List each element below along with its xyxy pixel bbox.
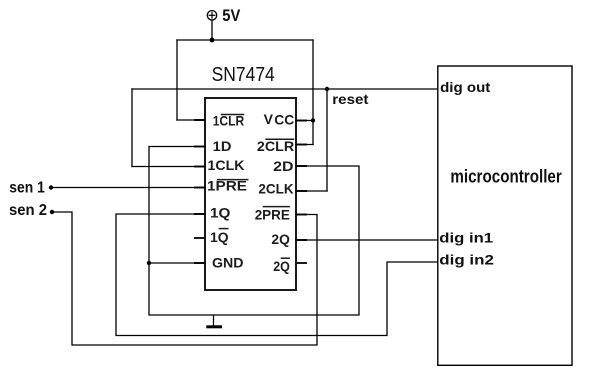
svg-text:5V: 5V [222, 7, 240, 25]
svg-text:dig in1: dig in1 [439, 230, 493, 246]
svg-text:GND: GND [212, 255, 244, 271]
svg-text:2Q: 2Q [273, 258, 290, 274]
svg-text:2CLR: 2CLR [257, 138, 294, 154]
svg-text:2CLK: 2CLK [258, 181, 293, 197]
svg-text:2D: 2D [273, 158, 293, 174]
svg-text:2PRE: 2PRE [255, 207, 290, 223]
svg-text:reset: reset [332, 91, 368, 107]
svg-text:dig in2: dig in2 [439, 252, 494, 268]
svg-text:1CLK: 1CLK [208, 157, 245, 173]
svg-text:sen 2: sen 2 [9, 202, 47, 219]
svg-text:CC: CC [274, 111, 294, 127]
svg-text:microcontroller: microcontroller [450, 167, 561, 187]
svg-text:V: V [264, 111, 274, 127]
svg-text:sen 1: sen 1 [9, 179, 45, 196]
svg-text:SN7474: SN7474 [212, 63, 275, 86]
svg-text:2Q: 2Q [271, 231, 290, 247]
svg-text:1Q: 1Q [210, 229, 229, 245]
svg-text:1D: 1D [213, 138, 232, 154]
svg-text:1Q: 1Q [210, 205, 231, 221]
svg-text:dig out: dig out [440, 79, 491, 95]
